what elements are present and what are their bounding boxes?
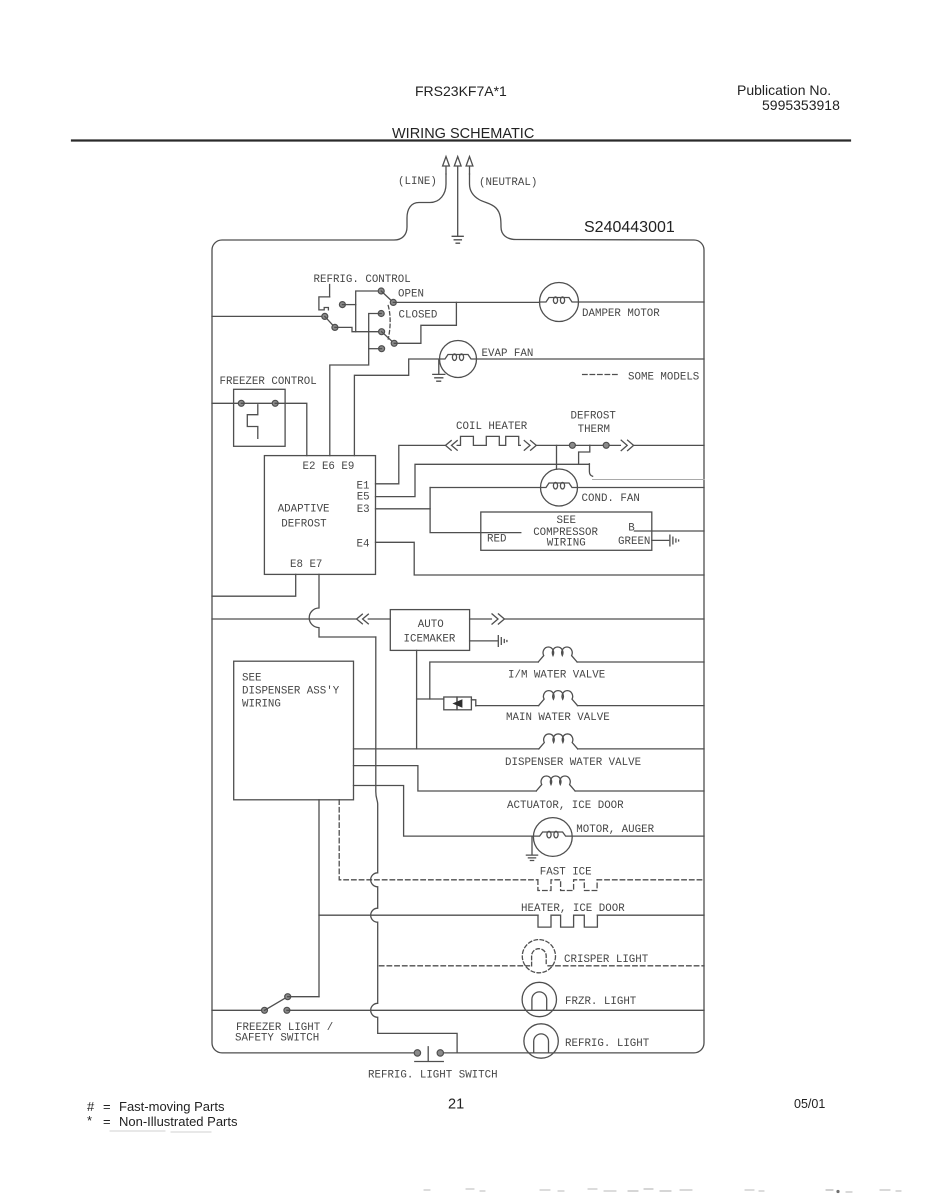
freezer safety switch arm [265,997,288,1011]
plug prong LINE [443,157,450,175]
defrost therm contact left [569,442,575,448]
svg-text:21: 21 [448,1097,464,1113]
wire left edge to freezer control [212,402,241,404]
wire dispenser box to actuator row [354,766,537,791]
freezer control box [234,389,286,446]
OPEN contact [378,288,384,294]
svg-text:#: # [87,1099,95,1114]
ground symbol under plug [452,236,463,243]
wire cond fan left [430,487,540,489]
wire B to right bus [634,530,704,532]
I/M water valve coil L1 [538,647,577,662]
wire E3 to cond fan node [376,508,431,510]
adaptive defrost box U1 [264,456,375,575]
svg-text:CLOSED: CLOSED [399,310,438,322]
wire freezer control to adaptive defrost [275,403,307,455]
wire therm row down to cond fan [556,445,558,469]
wire I/M valve to right bus [577,661,704,663]
defrost therm bimetal [579,445,593,476]
svg-text:REFRIG. LIGHT: REFRIG. LIGHT [565,1038,650,1050]
svg-text:EVAP FAN: EVAP FAN [482,348,534,360]
refrig control switch arm OPEN [381,291,393,302]
wire bus to water valve block [417,698,444,700]
svg-text:E8 E7: E8 E7 [290,559,322,571]
dashed crisper row left [379,965,529,967]
wire frzr light row from left edge [212,1009,265,1011]
wire upper contact to vertical [288,996,319,998]
svg-text:COIL HEATER: COIL HEATER [456,421,528,433]
wire E5 to bimetal [376,464,590,496]
svg-text:FAST ICE: FAST ICE [540,867,592,879]
svg-text:(LINE): (LINE) [398,176,437,188]
wire icemaker to comb connector [470,640,498,642]
connector chevrons right of icemaker [492,614,504,624]
frzr light bulb [522,982,556,1016]
wire heater ice door to right bus [597,914,704,916]
freezer safety switch contact upper [285,994,291,1000]
wire dispenser valve to right bus [578,748,704,750]
wire heater ice door row [319,914,538,916]
evap fan motor M2 [440,341,477,378]
wire GREEN to connector [652,539,669,541]
wire evap fan to right bus [476,358,704,360]
svg-text:ADAPTIVE: ADAPTIVE [278,504,330,516]
refrig light switch contact left [414,1050,420,1056]
cond fan motor M3 [541,469,578,506]
svg-text:Fast-moving Parts: Fast-moving Parts [119,1099,225,1114]
actuator ice door coil L4 [536,776,575,791]
wire frzr light row [287,1009,704,1011]
svg-text:MAIN WATER VALVE: MAIN WATER VALVE [506,712,610,724]
svg-text:Non-Illustrated Parts: Non-Illustrated Parts [119,1114,238,1129]
wire icemaker row to right bus [504,618,704,620]
refrig control pole B arm [382,332,395,344]
wire pole C contact to closed bus [369,348,382,350]
refrig control pole A arm [325,316,335,327]
auto icemaker box [390,610,469,651]
see dispenser assy wiring box [234,661,354,800]
svg-text:OPEN: OPEN [398,289,424,301]
svg-text:DISPENSER ASS'Y: DISPENSER ASS'Y [242,686,340,698]
svg-text:SAFETY SWITCH: SAFETY SWITCH [235,1033,319,1045]
svg-text:ICEMAKER: ICEMAKER [404,634,456,646]
crisper light bulb dashed [522,940,555,973]
svg-text:E2 E6 E9: E2 E6 E9 [303,461,355,473]
wire CLOSED contact down to adaptive defrost [330,314,381,456]
refrig control pole C contact [379,346,385,352]
main left bus with hops [371,637,457,1053]
svg-text:REFRIG. LIGHT SWITCH: REFRIG. LIGHT SWITCH [368,1070,498,1082]
svg-text:DISPENSER WATER VALVE: DISPENSER WATER VALVE [505,757,641,769]
svg-text:AUTO: AUTO [418,619,444,631]
wire icemaker bottom bus down to dispenser valve row [416,650,418,749]
wire dispenser valve row [354,748,539,750]
compressor wiring box [481,512,652,550]
coil heater element [457,436,520,445]
wire defrost therm to right bus [634,444,704,446]
enclosure outline with plug bump [212,174,446,1053]
wire E8 to left edge [212,574,296,596]
connector chevrons left of coil heater [446,441,458,451]
svg-text:THERM: THERM [578,424,610,436]
refrig control pivot contact [390,299,396,305]
main water valve coil L2 [539,691,578,706]
svg-text:WIRING: WIRING [547,538,586,550]
icemaker comb connector [498,636,507,647]
svg-text:S240443001: S240443001 [584,219,675,236]
wire I/M valve row left corner [430,662,538,699]
svg-text:WIRING: WIRING [242,699,281,711]
wire from left edge to refrig control [212,315,325,317]
svg-text:5995353918: 5995353918 [762,97,840,113]
freezer control through wire [241,402,275,404]
freezer safety switch contact right [284,1007,290,1013]
wire coil heater to defrost therm [536,444,620,446]
wire auger to right bus [572,835,704,837]
header rule line [72,139,850,141]
svg-text:GREEN: GREEN [618,536,650,548]
wire actuator to right bus [575,790,704,792]
wire E4 to right bus [376,542,705,575]
refrig light switch contact right [437,1050,443,1056]
plug prong NEUTRAL [466,157,473,175]
wire evap fan return to adaptive defrost [354,359,439,456]
refrig control pole A arm end contact [332,324,338,330]
dashed cam link [388,306,390,340]
svg-text:E5: E5 [357,492,370,504]
svg-text:Publication No.: Publication No. [737,82,831,98]
freezer control cam symbol [247,405,257,439]
auger ground [526,837,537,861]
wire icemaker box right [470,618,492,620]
water valve block [444,697,457,710]
wire pole A to pole B contact [335,327,382,331]
dashed wire dispenser box to fast ice row [339,800,538,880]
svg-text:I/M WATER VALVE: I/M WATER VALVE [508,670,605,682]
freezer control contact right [272,400,278,406]
wire dispenser box to auger row [354,786,534,837]
wire cond fan to right bus [577,487,704,489]
refrig control aux contact [339,302,345,308]
wire dispenser box down to freezer switch [318,800,320,997]
svg-text:B: B [628,523,635,535]
defrost therm contact right [603,442,609,448]
faint wire from bimetal to right bus [593,479,704,481]
refrig control pole A pivot contact [322,313,328,319]
CLOSED contact [378,311,384,317]
svg-text:SOME MODELS: SOME MODELS [628,372,699,384]
refrig control pole B pivot contact [391,340,397,346]
svg-text:RED: RED [487,534,506,546]
wire cond fan node down to RED [430,488,521,533]
svg-text:REFRIG. CONTROL: REFRIG. CONTROL [314,274,411,286]
svg-text:COND. FAN: COND. FAN [582,493,640,505]
refrig control pole B contact [379,329,385,335]
wire E1 to coil heater row [376,445,446,483]
wire chevron to icemaker box [368,618,390,620]
svg-text:ACTUATOR, ICE DOOR: ACTUATOR, ICE DOOR [507,800,624,812]
svg-text:DEFROST: DEFROST [571,410,617,422]
svg-text:05/01: 05/01 [794,1097,825,1111]
wire main valve row [476,705,539,707]
svg-text:(NEUTRAL): (NEUTRAL) [479,177,537,189]
wire damper motor to right bus [578,301,704,303]
svg-text:=: = [103,1099,111,1114]
motor auger M4 [533,818,572,857]
wire aux contact to feed [342,304,355,306]
heater ice door element [538,915,597,927]
refrig light bulb [524,1024,558,1058]
svg-text:*: * [87,1113,92,1128]
svg-text:E4: E4 [357,539,370,551]
svg-text:FREEZER CONTROL: FREEZER CONTROL [220,376,317,388]
svg-text:CRISPER LIGHT: CRISPER LIGHT [564,954,649,966]
freezer control contact left [238,400,244,406]
svg-text:E3: E3 [357,504,370,516]
evap fan ground [433,360,445,382]
dispenser water valve coil L3 [539,734,578,749]
svg-text:=: = [103,1114,111,1129]
svg-text:DEFROST: DEFROST [281,519,327,531]
svg-text:FRS23KF7A*1: FRS23KF7A*1 [415,83,507,99]
wire main valve to right bus [578,705,705,707]
fast ice heater element dashed [538,880,597,891]
svg-text:FRZR. LIGHT: FRZR. LIGHT [565,996,637,1008]
connector chevrons right of coil heater [524,441,536,451]
svg-text:DAMPER MOTOR: DAMPER MOTOR [582,308,660,320]
wire vertical feed to OPEN contact [356,291,382,332]
dashed wire fast ice to right bus [597,879,704,881]
svg-text:MOTOR, AUGER: MOTOR, AUGER [576,824,654,836]
wire E7 down with hop to bus corner [309,574,376,637]
dashed crisper row right [548,965,704,967]
green comb connector [670,535,679,546]
damper motor M1 [540,283,579,322]
svg-text:HEATER, ICE DOOR: HEATER, ICE DOOR [521,903,625,915]
legend dashed sample [583,374,619,376]
refrig control cam symbol [319,297,330,310]
refrig light switch plunger [415,1047,444,1062]
svg-text:SEE: SEE [242,673,261,685]
plug prong ground pin [454,157,461,237]
svg-text:SEE: SEE [557,515,576,527]
connector chevrons right of defrost therm [621,440,633,450]
wire icemaker row from left edge [212,618,357,620]
connector chevrons left of icemaker [357,614,369,624]
wire damper motor row [393,301,539,303]
wire pole B pivot up to damper row [394,302,456,343]
freezer safety switch contact left [262,1007,268,1013]
refrig control label pointer [329,285,331,297]
